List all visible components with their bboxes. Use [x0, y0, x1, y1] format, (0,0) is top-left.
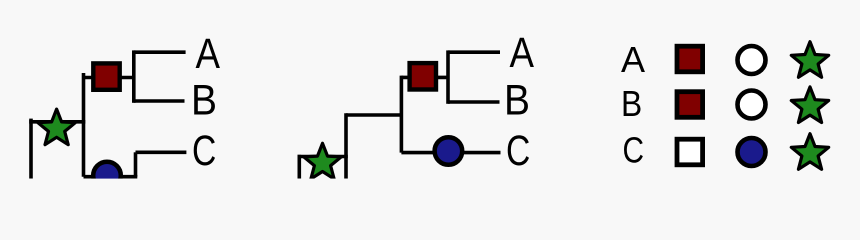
wire: middle tree inner vertical A-B [446, 50, 450, 103]
marker: row C green star [791, 134, 828, 170]
wire: left tree branch to A [134, 50, 186, 54]
marker: row B green star [791, 87, 828, 123]
wire: middle tree main vertical [400, 76, 404, 153]
wire: left tree branch to B [134, 99, 185, 103]
wire: left tree main vertical [82, 73, 86, 177]
svg-text:C: C [192, 128, 216, 175]
svg-text:B: B [191, 78, 217, 125]
marker: red square on middle tree A+B branch [410, 63, 436, 89]
wire: left tree basal branch (star branch) [29, 120, 85, 124]
wire: middle tree root horizontal [346, 113, 401, 117]
svg-text:A: A [196, 31, 221, 78]
wire: middle tree branch to C [401, 151, 500, 155]
svg-text:C: C [506, 128, 530, 175]
marker: row C open square [677, 139, 703, 165]
marker: blue circle on middle tree C branch [435, 137, 463, 165]
svg-text:B: B [504, 78, 530, 125]
wire: left tree branch to C [136, 151, 187, 155]
marker: red square on left tree A+B branch [93, 63, 119, 89]
wire: middle tree left stub (cut at bottom) [297, 155, 301, 179]
wire: left tree jog vertical to C [134, 152, 138, 176]
svg-text:B: B [621, 83, 642, 124]
marker: row A open circle [738, 46, 766, 74]
marker: row B filled red square [677, 92, 703, 118]
wire: left tree bottom horizontal (cut) [84, 175, 138, 179]
marker: row A green star [791, 42, 828, 78]
wire: left tree inner vertical A-B [132, 50, 136, 102]
wire: middle tree branch to (A,B) clade (square branch) [401, 76, 448, 80]
svg-text:C: C [623, 130, 645, 171]
wire: left tree branch to (A,B) clade (square branch) [84, 76, 134, 80]
crop mask: figure cut off below y=178.5 [0, 179, 860, 190]
wire: middle tree branch to A [448, 50, 500, 54]
marker: row C filled navy circle [738, 138, 766, 166]
marker: blue circle on left tree (half cut off) [93, 162, 121, 190]
wire: middle tree basal branch (star branch) [298, 155, 348, 159]
svg-text:A: A [510, 30, 535, 77]
marker: green star on middle tree basal branch (bottom points cut) [304, 143, 341, 179]
marker: row A filled red square [677, 46, 703, 72]
svg-text:A: A [621, 39, 645, 80]
wire: left tree root stub (cut at bottom) [29, 119, 33, 179]
marker: green star on left tree basal branch [38, 109, 75, 145]
wire: middle tree root vertical (cut at bottom) [344, 113, 348, 178]
marker: row B open circle [738, 91, 766, 119]
wire: middle tree branch to B [448, 100, 500, 104]
